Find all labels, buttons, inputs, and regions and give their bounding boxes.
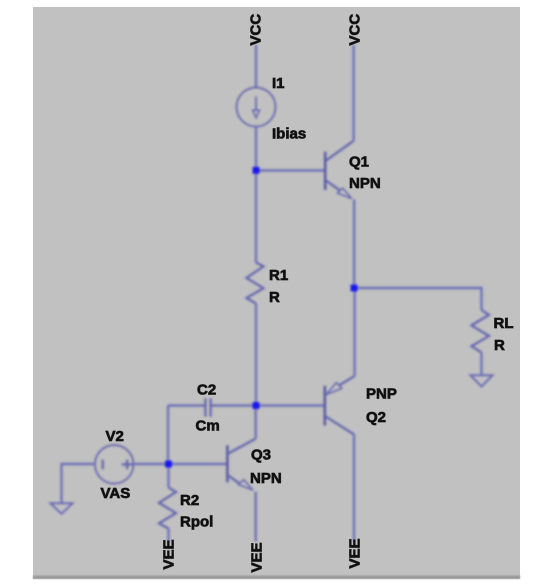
wire I1 bottom to node A: [255, 127, 257, 171]
ground (RL): [471, 375, 493, 386]
svg-text:Q1: Q1: [349, 154, 369, 171]
wire VCC to I1 top: [255, 45, 257, 88]
svg-text:PNP: PNP: [366, 386, 397, 403]
svg-text:VEE: VEE: [161, 539, 178, 569]
wire Q1 emitter to node D: [353, 199, 355, 288]
svg-text:NPN: NPN: [250, 470, 282, 487]
wire node C to R2 top: [167, 464, 169, 487]
transistor Q3: [227, 439, 255, 491]
transistor Q2: [325, 376, 355, 435]
node D junction: [351, 285, 358, 292]
svg-text:R2: R2: [180, 492, 199, 509]
node A junction: [253, 167, 260, 174]
wire Q2 collector to VEE: [353, 434, 355, 541]
svg-text:VCC: VCC: [248, 14, 265, 46]
wire Q1 collector to VCC: [352, 45, 354, 141]
svg-text:VAS: VAS: [101, 485, 131, 502]
svg-text:R: R: [269, 289, 280, 306]
wire node C to Q3 base: [168, 463, 227, 465]
wire C2 left down to node C: [167, 406, 169, 465]
svg-text:VCC: VCC: [347, 14, 364, 46]
wire node B to Q2 base: [256, 404, 324, 406]
wire RL bottom to ground: [480, 352, 482, 375]
transistor Q1: [325, 141, 353, 199]
svg-text:VEE: VEE: [347, 538, 364, 568]
wire V2 minus to ground: [62, 464, 95, 503]
svg-text:RL: RL: [494, 315, 514, 332]
resistor R1: [247, 263, 264, 304]
node C junction: [165, 461, 172, 468]
svg-text:NPN: NPN: [349, 175, 381, 192]
svg-text:C2: C2: [197, 382, 216, 399]
node B junction: [253, 402, 260, 409]
svg-text:V2: V2: [106, 428, 124, 445]
svg-text:VEE: VEE: [249, 542, 266, 572]
wire Q3 emitter to VEE: [254, 492, 256, 542]
wire R1 bottom to node B: [255, 304, 257, 406]
wire node D to RL: [354, 288, 482, 310]
svg-text:R: R: [494, 337, 505, 354]
svg-text:Rpol: Rpol: [180, 514, 213, 531]
ground (V2): [51, 503, 73, 514]
resistor R2: [159, 487, 176, 528]
wire R2 bottom to VEE: [167, 529, 169, 543]
resistor RL: [472, 310, 490, 352]
wire node A to R1 top: [255, 170, 257, 263]
current source I1: [237, 88, 276, 127]
svg-text:R1: R1: [269, 267, 288, 284]
wire V2 plus to node C: [134, 463, 169, 465]
svg-text:Ibias: Ibias: [272, 126, 306, 143]
capacitor C2: [168, 398, 256, 416]
wire node A to Q1 base: [256, 169, 325, 171]
wire Q2 emitter to node D: [353, 288, 355, 376]
wire Q3 collector to node B: [254, 406, 256, 439]
svg-text:I1: I1: [272, 75, 285, 92]
svg-text:Q2: Q2: [366, 409, 386, 426]
svg-text:Q3: Q3: [251, 447, 271, 464]
svg-text:Cm: Cm: [196, 418, 220, 435]
voltage source V2: [95, 445, 134, 484]
